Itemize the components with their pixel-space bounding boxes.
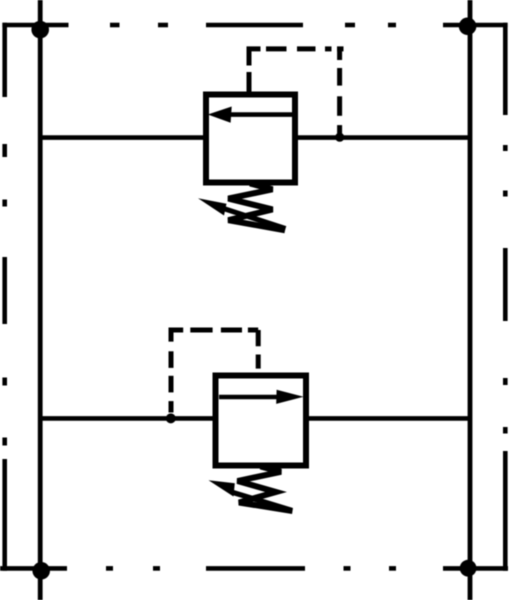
valve V2 adjustment arrow head [209,480,235,496]
valve V2 pilot line corner (left L) [171,330,183,342]
valve V1 pilot line corner (left L) [249,49,261,66]
valve V1 flow arrow (points left) [208,107,293,123]
valve V1 pilot line dash [247,72,252,92]
enclosure dashed border, right edge [503,23,508,571]
valve V1 body square [206,95,295,183]
valve V2 adjustment arrow shaft [233,493,292,511]
left port bus line P1 [38,0,43,600]
node: V2 pilot junction dot [166,413,176,423]
valve V2 pilot line left dashes [169,351,174,412]
node junction dot top-right [459,18,477,36]
valve V1 pilot line corner (right L) [337,47,344,60]
wire: top valve left branch [38,135,205,140]
valve V1 pilot line top dashes [266,46,332,51]
node: V1 pilot junction dot [335,133,344,142]
valve V2 pilot line corner (right L) [248,330,258,346]
wire: top valve right branch [296,135,472,140]
enclosure dashed border, bottom edge [0,566,508,571]
wire: bottom valve right branch [307,416,472,421]
valve V1 spring zigzag [228,184,285,231]
wire: bottom valve left branch [38,416,214,421]
enclosure dashed border, top edge [2,23,507,28]
node junction dot top-left [31,21,49,39]
valve V1 adjustment arrow shaft [225,209,286,229]
node junction dot bottom-right [460,560,477,577]
valve V2 body square [216,376,307,466]
right port bus line P2 [468,0,473,600]
valve V1 adjustment arrow head [198,198,227,215]
valve V2 spring zigzag [238,467,293,512]
enclosure dashed border, left edge [2,23,7,571]
valve V2 pilot line top dashes [190,328,242,333]
node junction dot bottom-left [32,562,50,580]
valve V1 pilot line right dashes [337,68,342,134]
valve V2 pilot line right dash [256,355,261,369]
valve V2 flow arrow (points right) [219,390,304,404]
